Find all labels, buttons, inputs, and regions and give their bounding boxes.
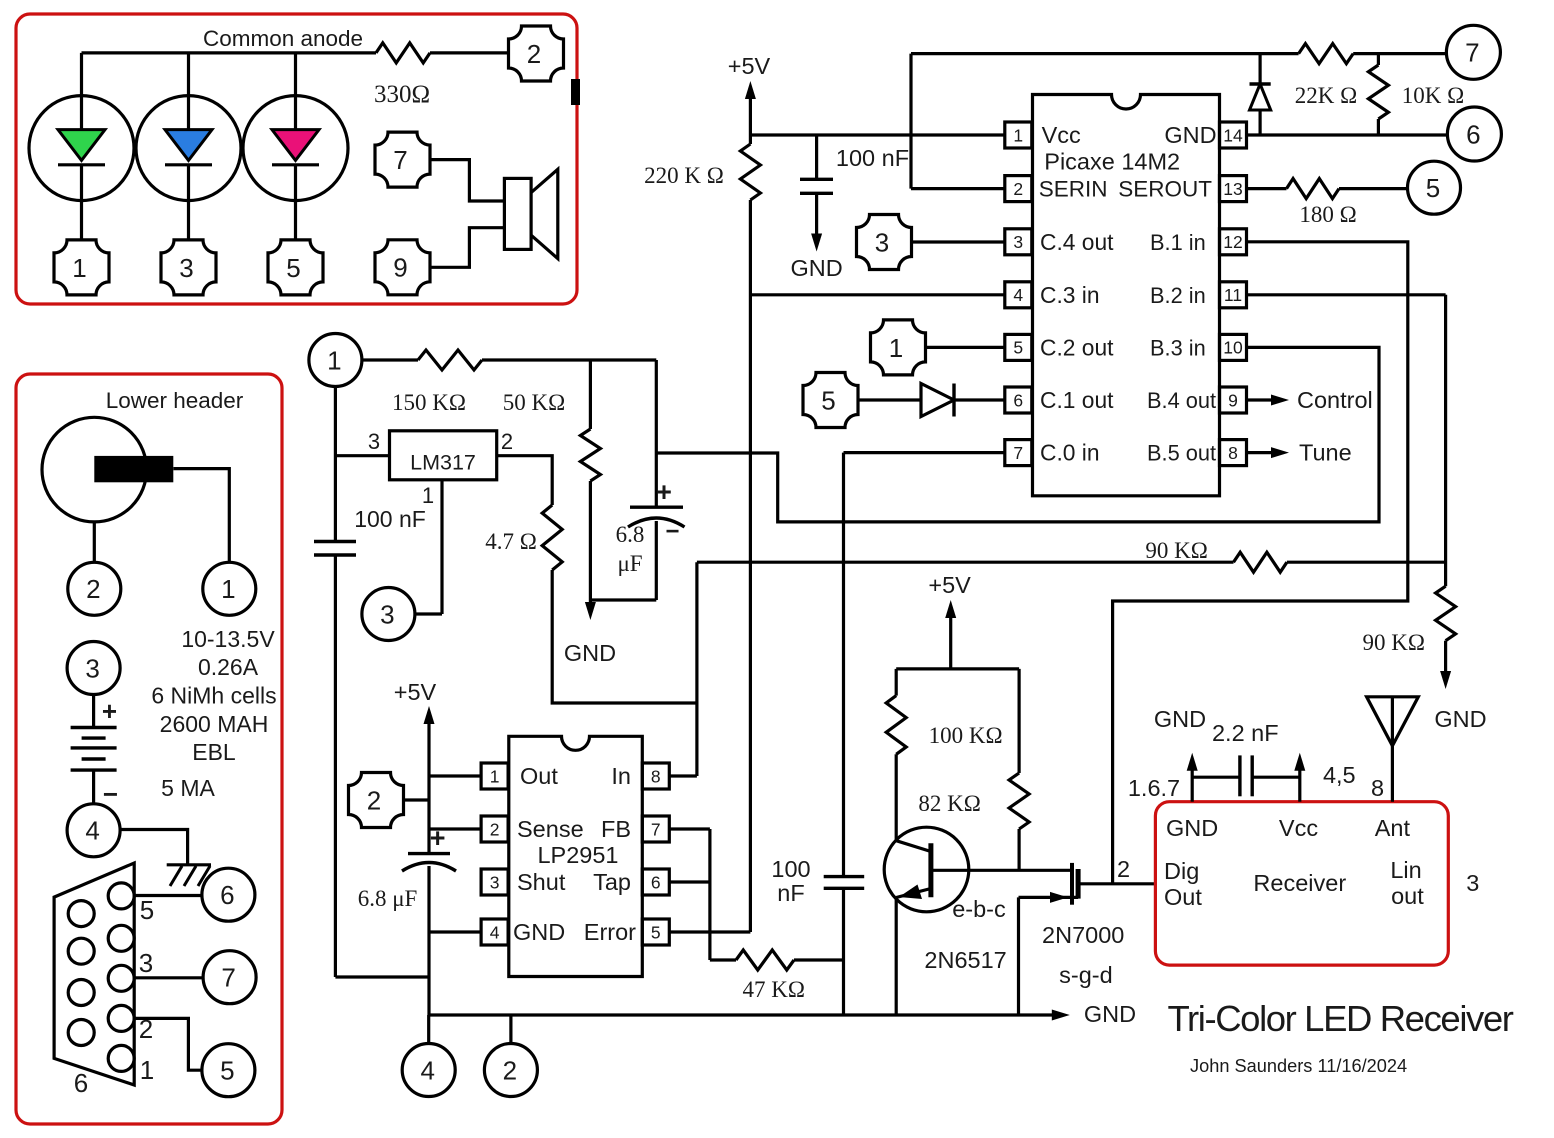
svg-text:B.4 out: B.4 out — [1147, 388, 1216, 413]
svg-text:+5V: +5V — [394, 679, 437, 705]
svg-text:2: 2 — [1013, 179, 1023, 199]
svg-text:3: 3 — [490, 872, 500, 892]
svg-text:B.1 in: B.1 in — [1150, 230, 1206, 255]
svg-text:C.0 in: C.0 in — [1040, 440, 1100, 466]
svg-text:6: 6 — [74, 1068, 88, 1098]
svg-text:GND: GND — [564, 640, 616, 666]
svg-text:GND: GND — [1164, 122, 1216, 148]
svg-text:8: 8 — [1371, 775, 1384, 801]
svg-text:Lower header: Lower header — [106, 388, 244, 413]
svg-text:4: 4 — [420, 1055, 434, 1085]
svg-text:8: 8 — [1228, 443, 1238, 463]
svg-text:10: 10 — [1223, 338, 1243, 358]
svg-text:100 nF: 100 nF — [354, 506, 426, 532]
svg-text:6: 6 — [1013, 390, 1023, 410]
svg-text:5: 5 — [1013, 338, 1023, 358]
svg-text:47 KΩ: 47 KΩ — [742, 977, 804, 1002]
svg-text:3: 3 — [85, 653, 99, 683]
svg-text:Shut: Shut — [517, 869, 566, 895]
svg-text:2N6517: 2N6517 — [924, 947, 1006, 973]
svg-text:5 MA: 5 MA — [161, 775, 215, 801]
svg-text:Receiver: Receiver — [1253, 870, 1346, 896]
svg-text:SEROUT: SEROUT — [1118, 177, 1212, 202]
svg-text:50 KΩ: 50 KΩ — [503, 390, 565, 415]
svg-text:3: 3 — [1013, 232, 1023, 252]
svg-text:out: out — [1391, 883, 1424, 909]
svg-text:GND: GND — [1154, 706, 1206, 732]
svg-text:C.3 in: C.3 in — [1040, 282, 1100, 308]
svg-text:e-b-c: e-b-c — [952, 896, 1006, 922]
svg-text:1: 1 — [889, 333, 903, 363]
svg-text:5: 5 — [286, 253, 300, 283]
svg-text:1: 1 — [140, 1055, 154, 1085]
svg-text:6: 6 — [651, 872, 661, 892]
svg-text:3: 3 — [380, 599, 394, 629]
svg-text:Lin: Lin — [1390, 857, 1421, 883]
svg-text:Dig: Dig — [1164, 858, 1199, 884]
svg-text:LP2951: LP2951 — [537, 842, 618, 868]
svg-text:22K Ω: 22K Ω — [1295, 83, 1357, 108]
svg-text:1: 1 — [221, 574, 235, 604]
svg-text:2: 2 — [86, 574, 100, 604]
svg-text:B.3 in: B.3 in — [1150, 335, 1206, 360]
svg-text:4: 4 — [490, 922, 500, 942]
svg-text:330Ω: 330Ω — [374, 81, 430, 108]
svg-text:B.5 out: B.5 out — [1147, 441, 1216, 466]
svg-text:Error: Error — [584, 919, 636, 945]
svg-text:5: 5 — [1426, 173, 1440, 203]
svg-text:6 NiMh cells: 6 NiMh cells — [151, 683, 276, 709]
svg-text:3: 3 — [139, 948, 153, 978]
svg-text:John Saunders 11/16/2024: John Saunders 11/16/2024 — [1190, 1056, 1407, 1076]
svg-text:150 KΩ: 150 KΩ — [392, 390, 466, 415]
svg-text:LM317: LM317 — [410, 451, 476, 475]
svg-text:Vcc: Vcc — [1042, 122, 1081, 148]
svg-text:Sense: Sense — [517, 816, 584, 842]
svg-text:GND: GND — [790, 255, 842, 281]
svg-text:14: 14 — [1223, 125, 1243, 145]
svg-text:1: 1 — [490, 766, 500, 786]
svg-text:90 KΩ: 90 KΩ — [1362, 630, 1424, 655]
svg-text:7: 7 — [651, 819, 661, 839]
svg-text:3: 3 — [1466, 870, 1479, 896]
svg-text:B.2 in: B.2 in — [1150, 283, 1206, 308]
svg-text:5: 5 — [220, 1056, 234, 1086]
svg-text:+5V: +5V — [728, 53, 771, 79]
svg-text:1: 1 — [327, 345, 341, 375]
svg-text:2: 2 — [490, 819, 500, 839]
svg-text:EBL: EBL — [192, 739, 236, 765]
svg-text:+: + — [102, 696, 117, 726]
svg-text:4: 4 — [1013, 285, 1023, 305]
svg-text:C.4 out: C.4 out — [1040, 229, 1114, 255]
svg-text:2: 2 — [1117, 856, 1130, 882]
svg-text:7: 7 — [1013, 443, 1023, 463]
svg-text:4.7 Ω: 4.7 Ω — [485, 529, 537, 554]
svg-text:3: 3 — [179, 253, 193, 283]
svg-text:1: 1 — [72, 253, 86, 283]
svg-text:2600 MAH: 2600 MAH — [160, 711, 269, 737]
svg-text:6: 6 — [220, 880, 234, 910]
svg-text:+5V: +5V — [928, 572, 971, 598]
svg-text:4,5: 4,5 — [1323, 762, 1356, 788]
svg-text:2: 2 — [501, 429, 513, 454]
svg-text:8: 8 — [651, 766, 661, 786]
svg-text:Tap: Tap — [593, 869, 631, 895]
svg-text:1.6.7: 1.6.7 — [1128, 775, 1180, 801]
svg-text:1: 1 — [422, 483, 434, 508]
svg-text:−: − — [665, 518, 679, 545]
svg-text:180 Ω: 180 Ω — [1299, 202, 1356, 227]
svg-text:9: 9 — [1228, 390, 1238, 410]
svg-text:GND: GND — [1166, 815, 1218, 841]
svg-text:Tri-Color LED Receiver: Tri-Color LED Receiver — [1167, 998, 1513, 1039]
svg-text:In: In — [611, 763, 631, 789]
svg-text:5: 5 — [651, 922, 661, 942]
svg-text:0.26A: 0.26A — [198, 654, 259, 680]
svg-text:μF: μF — [617, 551, 642, 576]
svg-text:C.1 out: C.1 out — [1040, 387, 1114, 413]
svg-text:2: 2 — [503, 1055, 517, 1085]
svg-text:Out: Out — [1164, 884, 1202, 910]
svg-text:SERIN: SERIN — [1039, 177, 1108, 202]
svg-text:Control: Control — [1297, 387, 1373, 413]
svg-text:90 KΩ: 90 KΩ — [1145, 538, 1207, 563]
svg-text:GND: GND — [513, 919, 565, 945]
svg-text:Common anode: Common anode — [203, 26, 363, 51]
svg-text:C.2 out: C.2 out — [1040, 334, 1114, 360]
svg-text:3: 3 — [875, 227, 889, 257]
svg-text:+: + — [656, 477, 672, 507]
svg-text:s-g-d: s-g-d — [1059, 962, 1113, 988]
svg-text:Picaxe 14M2: Picaxe 14M2 — [1044, 149, 1180, 175]
svg-text:13: 13 — [1223, 179, 1242, 199]
svg-text:−: − — [103, 779, 118, 809]
svg-text:Vcc: Vcc — [1279, 815, 1318, 841]
svg-text:6.8: 6.8 — [616, 522, 645, 547]
svg-text:12: 12 — [1223, 232, 1242, 252]
svg-text:Ant: Ant — [1375, 815, 1411, 841]
svg-text:7: 7 — [393, 145, 407, 175]
svg-text:5: 5 — [140, 895, 154, 925]
svg-text:10K Ω: 10K Ω — [1402, 83, 1464, 108]
svg-text:Tune: Tune — [1299, 440, 1352, 466]
svg-text:3: 3 — [368, 429, 380, 454]
svg-text:1: 1 — [1013, 125, 1023, 145]
svg-text:6: 6 — [1466, 119, 1480, 149]
svg-text:GND: GND — [1434, 706, 1486, 732]
svg-text:220 K Ω: 220 K Ω — [644, 163, 724, 188]
svg-text:100: 100 — [771, 856, 810, 882]
svg-text:2N7000: 2N7000 — [1042, 922, 1124, 948]
svg-text:4: 4 — [85, 816, 99, 846]
svg-text:100 nF: 100 nF — [836, 145, 909, 171]
svg-text:2.2 nF: 2.2 nF — [1212, 720, 1279, 746]
svg-text:6.8 μF: 6.8 μF — [358, 886, 418, 911]
svg-text:82 KΩ: 82 KΩ — [918, 791, 980, 816]
svg-text:GND: GND — [1084, 1001, 1136, 1027]
svg-text:2: 2 — [527, 39, 541, 69]
svg-text:9: 9 — [393, 253, 407, 283]
svg-text:FB: FB — [601, 816, 631, 842]
svg-text:100 KΩ: 100 KΩ — [929, 723, 1003, 748]
svg-text:11: 11 — [1224, 285, 1242, 305]
svg-text:5: 5 — [821, 385, 835, 415]
svg-text:7: 7 — [1465, 38, 1479, 68]
svg-text:2: 2 — [367, 785, 381, 815]
svg-text:10-13.5V: 10-13.5V — [181, 626, 275, 652]
svg-text:nF: nF — [777, 880, 804, 906]
svg-text:7: 7 — [221, 963, 235, 993]
svg-text:Out: Out — [520, 763, 558, 789]
